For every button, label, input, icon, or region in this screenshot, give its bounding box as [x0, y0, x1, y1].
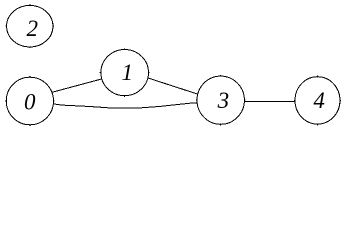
node 3 [196, 75, 246, 126]
svg-text:3: 3 [217, 88, 230, 113]
node 4 [294, 76, 341, 126]
node 0 [5, 76, 55, 126]
edge 1-3 [147, 78, 199, 95]
edge 0-1 [51, 79, 103, 93]
edge 0-3 [53, 103, 198, 108]
edge 3-4 [244, 100, 295, 102]
svg-text:4: 4 [313, 88, 325, 113]
svg-text:2: 2 [26, 16, 38, 41]
node 2 [5, 4, 54, 48]
svg-text:0: 0 [24, 89, 36, 114]
node 1 [100, 48, 150, 97]
svg-text:1: 1 [121, 60, 133, 85]
